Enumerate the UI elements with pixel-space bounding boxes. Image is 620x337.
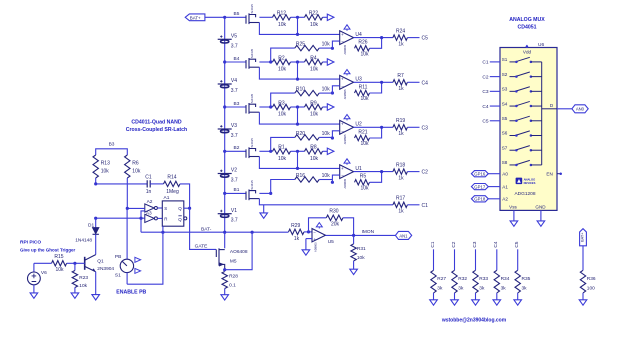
wire U3 output: [354, 81, 393, 83]
svg-text:S: S: [164, 206, 167, 211]
wire U3 - input: [331, 91, 334, 94]
svg-text:10k: 10k: [278, 67, 287, 73]
svg-text:V1: V1: [231, 208, 237, 214]
ground R31: [350, 269, 358, 274]
svg-text:R19: R19: [396, 118, 405, 124]
svg-text:AD8605: AD8605: [343, 178, 347, 188]
mosfet B5: [246, 13, 259, 24]
voltage source V6: [34, 262, 52, 264]
svg-text:C5: C5: [482, 119, 488, 125]
wire junction R2/R4: [291, 61, 305, 63]
svg-text:R10: R10: [296, 87, 305, 93]
svg-text:R25: R25: [296, 42, 305, 48]
svg-text:U2: U2: [355, 122, 362, 128]
mosfet B2: [246, 147, 259, 158]
ground GND: [537, 221, 545, 226]
svg-text:10k: 10k: [132, 168, 141, 174]
node B2: [223, 150, 226, 153]
svg-text:R3: R3: [278, 100, 285, 106]
svg-text:10k: 10k: [278, 22, 287, 28]
ground Q1: [92, 295, 100, 300]
svg-text:Vss: Vss: [509, 205, 517, 210]
op-amp U5: [312, 229, 326, 242]
wire U4 - input: [331, 47, 334, 50]
svg-text:1k: 1k: [398, 41, 404, 47]
wire mux common bus: [541, 62, 543, 165]
resistor R4 10k: [305, 59, 323, 64]
wire BAT+ to rail: [205, 16, 225, 18]
svg-text:GP16: GP16: [474, 171, 486, 176]
svg-text:C5: C5: [422, 36, 429, 42]
wire GP17 to A1: [488, 186, 500, 188]
svg-text:10k: 10k: [101, 168, 110, 174]
capacitor C1 1n: [147, 180, 150, 187]
svg-text:R24: R24: [396, 28, 405, 34]
flag BAT+: [185, 14, 205, 21]
svg-text:−: −: [341, 129, 344, 134]
svg-text:B1: B1: [234, 187, 240, 193]
wire to R30: [309, 218, 327, 232]
svg-text:R14: R14: [167, 174, 176, 180]
svg-text:B3: B3: [109, 142, 115, 148]
svg-text:R22: R22: [309, 11, 318, 17]
resistor R9 10k: [305, 104, 323, 109]
svg-text:R17: R17: [396, 196, 405, 202]
resistor R6 10k: [125, 155, 130, 178]
svg-text:IMON: IMON: [362, 229, 375, 235]
wire input C1: [490, 61, 500, 63]
svg-text:1N4148: 1N4148: [75, 237, 92, 243]
svg-text:Si4435: Si4435: [250, 93, 254, 103]
battery V1 3.7V: [218, 210, 232, 218]
wire V6 to ground: [33, 285, 35, 293]
svg-text:1Meg: 1Meg: [166, 189, 179, 195]
resistor R16 10k: [269, 192, 272, 195]
svg-text:10k: 10k: [310, 67, 319, 73]
node B5: [223, 16, 226, 19]
svg-text:Si4435: Si4435: [250, 180, 254, 190]
wire input C5: [490, 120, 500, 122]
mosfet B4: [246, 58, 259, 69]
svg-text:BAT-: BAT-: [201, 226, 212, 232]
wire B4 source to op-amp: [259, 67, 339, 79]
svg-text:10k: 10k: [55, 267, 64, 273]
svg-text:10k: 10k: [360, 186, 369, 192]
svg-text:C4: C4: [493, 241, 499, 247]
wire battery rail: [224, 17, 226, 232]
svg-text:R20: R20: [296, 131, 305, 137]
svg-text:3k: 3k: [458, 285, 464, 291]
wire input C3: [490, 90, 500, 92]
svg-text:S4: S4: [502, 101, 508, 106]
wire junction R1/R8: [291, 150, 305, 152]
svg-text:C1: C1: [422, 203, 429, 209]
wire A3 output to R: [157, 217, 162, 219]
resistor R35 3k: [517, 249, 519, 270]
svg-text:R7: R7: [397, 73, 404, 79]
svg-text:V5: V5: [231, 34, 237, 40]
ground R36: [579, 300, 587, 305]
wire GND to ground: [540, 210, 542, 221]
svg-text:3.7: 3.7: [231, 218, 238, 224]
ground R33: [472, 300, 480, 305]
wire U5 output IMON: [326, 234, 396, 236]
resistor R28 0.1: [222, 272, 227, 289]
svg-text:R34: R34: [501, 276, 510, 282]
resistor R3 10k: [259, 106, 272, 108]
svg-text:1k: 1k: [398, 86, 404, 92]
svg-text:Cross-Coupled SR-Latch: Cross-Coupled SR-Latch: [126, 127, 187, 133]
wire Vss to ground: [513, 210, 515, 221]
svg-text:CD4011-Quad NAND: CD4011-Quad NAND: [131, 120, 181, 126]
op-amp U1: [340, 165, 354, 179]
wire A2 output to S: [157, 207, 162, 209]
svg-text:R33: R33: [479, 276, 488, 282]
svg-text:S3: S3: [502, 87, 508, 92]
svg-text:A0: A0: [502, 172, 508, 177]
latch A1 box: [162, 201, 184, 226]
svg-text:AD8605: AD8605: [314, 242, 318, 252]
svg-text:10k: 10k: [322, 42, 331, 48]
svg-text:R5: R5: [360, 174, 367, 180]
op-amp U4: [340, 31, 354, 45]
svg-text:3k: 3k: [522, 285, 528, 291]
svg-text:R36: R36: [587, 276, 596, 282]
wire R13 bottom: [95, 178, 97, 184]
svg-text:3k: 3k: [479, 285, 485, 291]
svg-text:B3: B3: [234, 101, 240, 107]
svg-text:ADG1208: ADG1208: [514, 191, 535, 197]
svg-text:V2: V2: [231, 168, 237, 174]
svg-text:10k: 10k: [322, 173, 331, 179]
svg-text:B2: B2: [234, 145, 240, 151]
svg-text:wstobbe@2n3904blog.com: wstobbe@2n3904blog.com: [441, 318, 507, 324]
wire R35 to ground: [517, 293, 519, 300]
wire latch top net: [96, 183, 148, 185]
wire tap B2: [225, 150, 246, 152]
mosfet B3: [246, 103, 259, 114]
wire A2 lower input to BAT-: [141, 211, 145, 232]
svg-text:R29: R29: [291, 223, 300, 229]
svg-text:−: −: [341, 173, 344, 178]
svg-text:−: −: [313, 230, 316, 235]
resistor R14 1Meg: [164, 181, 181, 186]
svg-text:C1: C1: [482, 60, 488, 66]
ground Vss: [510, 221, 518, 226]
svg-text:10k: 10k: [278, 112, 287, 118]
wire U2 - input: [331, 136, 334, 139]
wire BAT- rail: [141, 231, 289, 233]
svg-text:U1: U1: [355, 166, 362, 172]
svg-text:10k: 10k: [360, 141, 369, 147]
svg-text:20k: 20k: [331, 222, 340, 228]
resistor R29 1k: [289, 229, 305, 234]
svg-text:R32: R32: [458, 276, 467, 282]
svg-text:+: +: [313, 237, 316, 242]
resistor R34 3k: [496, 249, 498, 270]
svg-text:CD4051: CD4051: [517, 24, 536, 30]
ground R28: [221, 295, 229, 300]
svg-text:10k: 10k: [310, 22, 319, 28]
resistor R36 100: [582, 246, 584, 270]
contact arrows PB: [135, 257, 141, 262]
svg-text:Give up the Ghost Trigger: Give up the Ghost Trigger: [20, 247, 76, 252]
svg-text:U6: U6: [538, 42, 544, 48]
svg-text:S1: S1: [502, 57, 508, 62]
svg-text:R21: R21: [358, 129, 367, 135]
wire R32 to ground: [454, 293, 456, 300]
svg-text:AN0: AN0: [576, 107, 585, 112]
svg-text:R15: R15: [54, 254, 63, 260]
wire to net C5: [407, 37, 419, 39]
wire R34 to ground: [496, 293, 498, 300]
wire D output: [542, 108, 557, 110]
svg-text:C1: C1: [145, 174, 152, 180]
wire M5 source junction: [223, 268, 226, 271]
wire B5 source to op-amp: [259, 23, 339, 35]
resistor R31 10k: [353, 235, 355, 244]
wire U4 output: [354, 37, 393, 39]
wire B3 source to op-amp: [259, 112, 339, 124]
svg-text:1k: 1k: [398, 209, 404, 215]
battery V5 3.7V: [218, 35, 232, 43]
wire tap B3: [225, 106, 246, 108]
wire R28 to ground: [224, 289, 226, 295]
wire R31 to ground: [353, 261, 355, 269]
svg-text:−: −: [341, 39, 344, 44]
resistor R8 10k: [305, 149, 323, 154]
pin Vdd: [526, 45, 528, 48]
svg-text:Q: Q: [178, 206, 182, 211]
svg-text:M5: M5: [230, 258, 237, 264]
resistor R23 10k: [74, 263, 76, 270]
svg-text:3k: 3k: [437, 285, 443, 291]
battery V2 3.7V: [218, 170, 232, 178]
resistor R26 10k feedback: [355, 46, 370, 51]
resistor R2 10k: [259, 61, 272, 63]
svg-text:0.1: 0.1: [229, 282, 236, 288]
resistor R18 1k: [393, 169, 407, 174]
svg-text:R12: R12: [277, 11, 286, 17]
wire B1 source line: [259, 199, 393, 205]
svg-text:C5: C5: [514, 241, 520, 247]
mosfet B1: [246, 189, 259, 200]
svg-text:R2: R2: [278, 55, 285, 61]
resistor R25 10k: [269, 60, 272, 63]
svg-text:+: +: [341, 166, 344, 171]
svg-text:EN: EN: [546, 172, 552, 177]
ground R23: [71, 293, 79, 298]
svg-text:Si4435: Si4435: [250, 138, 254, 148]
svg-text:3.7: 3.7: [231, 88, 238, 94]
wire R6 bottom: [126, 178, 128, 208]
resistor R27 3k: [433, 249, 435, 270]
svg-text:C2: C2: [422, 170, 429, 176]
svg-text:BAT+: BAT+: [190, 15, 201, 20]
svg-text:1k: 1k: [398, 175, 404, 181]
flag AN0: [572, 105, 588, 113]
svg-text:BAT+: BAT+: [580, 232, 584, 242]
svg-text:V3: V3: [231, 123, 237, 129]
svg-text:R18: R18: [396, 162, 405, 168]
node B3: [223, 105, 226, 108]
svg-text:R23: R23: [79, 275, 88, 281]
ground R34: [493, 300, 501, 305]
svg-text:R11: R11: [359, 84, 368, 90]
svg-text:U4: U4: [355, 32, 362, 38]
battery V3 3.7V: [218, 125, 232, 133]
resistor R33 3k: [475, 249, 477, 270]
wire A3 input: [96, 217, 145, 219]
node B1: [223, 192, 226, 195]
svg-text:3.7: 3.7: [231, 43, 238, 49]
wire R29 junction: [304, 231, 312, 233]
port arrow R4: [323, 61, 328, 63]
svg-text:C2: C2: [451, 241, 457, 247]
resistor R19 1k: [393, 125, 407, 130]
wire to net C2: [407, 171, 419, 173]
svg-text:B5: B5: [234, 11, 240, 17]
op-amp U2: [340, 120, 354, 134]
wire R36 to ground: [582, 293, 584, 300]
svg-text:Si4435: Si4435: [250, 48, 254, 58]
wire R27 to ground: [433, 293, 435, 300]
resistor R13 10k: [93, 155, 98, 178]
latch Qbar bubble: [184, 217, 187, 220]
svg-text:V4: V4: [231, 78, 237, 84]
svg-text:C3: C3: [482, 89, 488, 95]
svg-text:R: R: [164, 217, 167, 222]
node B4: [223, 60, 226, 63]
svg-text:Q1: Q1: [97, 259, 104, 265]
svg-text:+: +: [341, 32, 344, 37]
svg-text:S2: S2: [502, 72, 508, 77]
ground R32: [451, 300, 459, 305]
svg-text:B4: B4: [234, 56, 240, 62]
svg-text:AO6408: AO6408: [230, 249, 248, 255]
ground R35: [514, 300, 522, 305]
svg-text:C2: C2: [482, 74, 488, 80]
ground V6: [30, 293, 38, 298]
svg-text:C4: C4: [422, 80, 429, 86]
wire Q output: [184, 207, 190, 209]
svg-text:R35: R35: [522, 276, 531, 282]
wire R23 to ground: [74, 288, 76, 293]
resistor R1 10k: [259, 150, 272, 152]
svg-text:S6: S6: [502, 131, 508, 136]
wire R30 to output: [343, 218, 354, 236]
wire to net C1: [407, 204, 419, 206]
wire to net C4: [407, 81, 419, 83]
wire tap B5: [225, 16, 246, 18]
wire input C4: [490, 105, 500, 107]
wire D1 to Q1 collector: [95, 234, 97, 254]
svg-text:U3: U3: [355, 77, 362, 83]
flag GP18: [471, 196, 488, 202]
wire U5 + input to ground: [306, 238, 312, 240]
resistor R20 10k: [269, 150, 272, 153]
svg-text:S8: S8: [502, 160, 508, 165]
svg-text:10k: 10k: [310, 156, 319, 162]
svg-text:10k: 10k: [322, 87, 331, 93]
flag GP16: [471, 171, 488, 177]
svg-text:ENABLE PB: ENABLE PB: [116, 289, 146, 295]
wire Q to GATE: [190, 208, 216, 249]
svg-text:C3: C3: [422, 125, 429, 131]
svg-text:R30: R30: [329, 208, 338, 214]
svg-text:3k: 3k: [501, 285, 507, 291]
svg-text:S7: S7: [502, 145, 508, 150]
svg-text:−: −: [341, 84, 344, 89]
wire Q1 emitter: [95, 272, 97, 295]
wire GP16 to A0: [488, 173, 500, 175]
flag GP17: [471, 184, 488, 190]
svg-text:10k: 10k: [360, 52, 369, 58]
resistor R15 10k: [52, 261, 67, 266]
resistor R10 10k: [269, 105, 272, 108]
svg-text:R9: R9: [310, 100, 317, 106]
resistor R30 20k: [326, 215, 343, 220]
svg-text:A1: A1: [164, 195, 170, 201]
svg-text:S1: S1: [115, 272, 121, 278]
transistor Q1 2N3904: [84, 257, 86, 270]
wire input C2: [490, 76, 500, 78]
svg-text:R26: R26: [358, 40, 367, 46]
ground B1 line: [263, 205, 265, 213]
svg-text:10k: 10k: [322, 131, 331, 137]
wire tap B4: [225, 61, 246, 63]
svg-text:R28: R28: [229, 273, 238, 279]
wire GP18 to A2: [488, 198, 500, 200]
svg-text:10k: 10k: [278, 156, 287, 162]
svg-text:R4: R4: [310, 55, 317, 61]
wire latch ground / push-button return: [127, 226, 163, 284]
resistor R32 3k: [454, 249, 456, 270]
wire Q1 base: [67, 262, 85, 264]
wire B3 bridge: [96, 149, 128, 155]
svg-text:C3: C3: [472, 241, 478, 247]
svg-text:GP18: GP18: [474, 197, 486, 202]
svg-text:A1: A1: [502, 184, 508, 189]
svg-text:R27: R27: [437, 276, 446, 282]
resistor R11 10k feedback: [355, 90, 370, 95]
svg-text:GP17: GP17: [474, 184, 486, 189]
wire U1 - input: [331, 181, 334, 184]
svg-text:+: +: [341, 77, 344, 82]
svg-text:RPI PICO: RPI PICO: [20, 240, 41, 246]
svg-text:V6: V6: [41, 270, 47, 276]
svg-text:3.7: 3.7: [231, 178, 238, 184]
svg-text:C4: C4: [482, 104, 488, 110]
resistor R22 10k: [305, 15, 323, 20]
svg-text:10k: 10k: [360, 96, 369, 102]
svg-text:R16: R16: [296, 173, 305, 179]
wire A2 input: [127, 207, 145, 209]
svg-text:1k: 1k: [398, 131, 404, 137]
svg-text:AN1: AN1: [399, 233, 408, 238]
mux U6 box: [500, 48, 557, 211]
svg-text:R31: R31: [357, 246, 366, 252]
svg-text:GND: GND: [535, 205, 546, 210]
svg-text:R6: R6: [132, 160, 139, 166]
wire junction R3/R9: [291, 106, 305, 108]
wire tap B1: [225, 192, 246, 194]
logo Analog Devices: [516, 178, 523, 185]
wire junction R12/R22: [291, 16, 305, 18]
svg-text:R1: R1: [278, 145, 285, 151]
svg-text:PB: PB: [115, 254, 121, 260]
svg-text:A2: A2: [147, 199, 153, 205]
